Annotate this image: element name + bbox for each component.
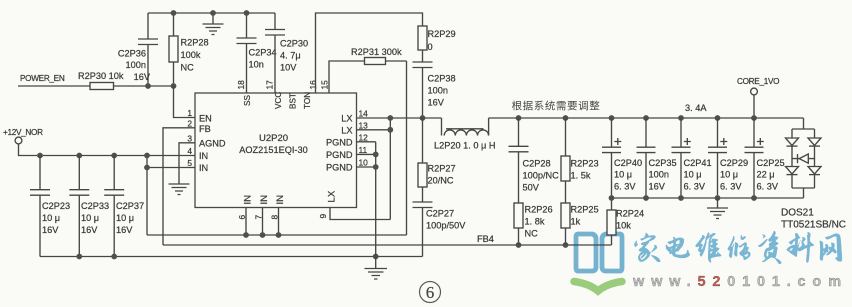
pin 15 TON: [303, 80, 330, 109]
svg-text:100n: 100n: [126, 60, 146, 70]
svg-text:PGND: PGND: [326, 163, 353, 173]
svg-text:C2P27: C2P27: [426, 209, 454, 219]
svg-text:9: 9: [318, 214, 328, 219]
svg-text:10 μ: 10 μ: [614, 170, 632, 180]
svg-text:16V: 16V: [428, 98, 445, 108]
svg-text:10 μ: 10 μ: [42, 213, 60, 223]
svg-text:100n: 100n: [428, 86, 448, 96]
svg-text:22 μ: 22 μ: [757, 170, 775, 180]
svg-text:R2P23: R2P23: [571, 159, 599, 169]
svg-text:BST: BST: [289, 93, 298, 109]
svg-text:6: 6: [426, 283, 435, 302]
svg-text:DOS21: DOS21: [781, 208, 814, 219]
svg-text:6: 6: [237, 215, 247, 220]
svg-text:3. 4A: 3. 4A: [685, 103, 707, 113]
resistor R2P25: [561, 203, 599, 245]
svg-text:16: 16: [308, 80, 318, 90]
svg-text:4. 7μ: 4. 7μ: [280, 51, 301, 61]
svg-text:FB4: FB4: [477, 234, 494, 244]
svg-text:LX: LX: [341, 125, 352, 135]
pin 6 IN: [237, 195, 254, 235]
svg-text:R2P30 10k: R2P30 10k: [78, 71, 124, 81]
resistor R2P27: [418, 118, 456, 202]
svg-text:R2P26: R2P26: [525, 205, 553, 215]
resistor R2P26: [514, 203, 553, 245]
svg-text:4: 4: [187, 146, 192, 156]
wire pin5 feed: [147, 156, 195, 168]
wire output ground rail: [612, 197, 804, 199]
svg-text:R2P27: R2P27: [428, 164, 456, 174]
svg-text:100p/50V: 100p/50V: [426, 221, 466, 231]
watermark chinese text 家电维修资料网: [634, 233, 660, 262]
svg-text:C2P36: C2P36: [118, 49, 146, 59]
capacitor C2P29: [708, 118, 748, 198]
wire VOUT rail: [489, 117, 804, 119]
resistor R2P30: [78, 71, 124, 90]
pin 10 PGND: [326, 158, 376, 173]
ground (main, below PGND): [365, 257, 388, 280]
wire PGND drop: [375, 142, 377, 257]
ground (output): [707, 198, 728, 219]
wire EN: [174, 86, 196, 118]
capacitor C2P34: [237, 13, 277, 93]
pin 11 PGND: [326, 145, 376, 160]
svg-text:2: 2: [187, 118, 192, 128]
svg-text:POWER_EN: POWER_EN: [20, 74, 65, 83]
svg-text:C2P38: C2P38: [428, 74, 456, 84]
svg-text:15: 15: [320, 80, 330, 90]
svg-text:R2P31 300k: R2P31 300k: [351, 47, 402, 57]
capacitor C2P28: [509, 118, 560, 203]
svg-text:14: 14: [359, 109, 369, 119]
capacitor C2P23: [30, 156, 70, 257]
svg-text:18: 18: [236, 80, 246, 90]
pin 2 FB: [163, 118, 211, 245]
watermark book icon: [576, 234, 622, 271]
svg-text:+12V_NOR: +12V_NOR: [3, 128, 43, 137]
svg-text:20/NC: 20/NC: [428, 176, 454, 186]
pin 13 LX: [341, 120, 390, 135]
pin 7 IN: [254, 195, 271, 235]
net FB4: [163, 234, 612, 245]
svg-text:6. 3V: 6. 3V: [614, 181, 636, 191]
svg-text:8: 8: [270, 215, 280, 220]
svg-text:10V: 10V: [280, 63, 297, 73]
svg-text:U2P20: U2P20: [259, 133, 288, 144]
svg-text:PGND: PGND: [326, 137, 353, 147]
svg-text:17: 17: [265, 80, 275, 90]
pin 3 AGND: [179, 133, 226, 183]
svg-text:TON: TON: [303, 92, 312, 109]
resistor R2P24: [607, 198, 644, 245]
svg-text:10k: 10k: [616, 221, 631, 231]
svg-text:16V: 16V: [116, 225, 133, 235]
svg-text:C2P28: C2P28: [523, 159, 551, 169]
svg-text:AOZ2151EQI-30: AOZ2151EQI-30: [239, 145, 307, 155]
svg-text:IN: IN: [199, 151, 208, 161]
node junctions VOUT rail: [516, 115, 757, 121]
svg-text:C2P30: C2P30: [280, 39, 308, 49]
op-amp U1 / IC U2P20 box: [195, 93, 357, 208]
svg-text:LX: LX: [327, 190, 338, 202]
wire IN rail (vertical drop + bottom run): [147, 168, 407, 236]
svg-text:C2P33: C2P33: [81, 201, 109, 211]
note text (adjust per system needs): [512, 101, 522, 111]
svg-text:16V: 16V: [42, 225, 59, 235]
svg-text:C2P25: C2P25: [757, 158, 785, 168]
resistor R2P28: [169, 13, 209, 86]
terminal CORE_1VO: [737, 77, 779, 118]
svg-text:IN: IN: [275, 195, 286, 205]
pin 16 BST: [289, 80, 319, 109]
ground (top): [203, 13, 224, 35]
pin 14 LX: [341, 109, 441, 124]
svg-text:R2P24: R2P24: [616, 209, 644, 219]
capacitor C2P27: [413, 202, 467, 257]
sheet number 6: [420, 282, 441, 303]
net POWER_EN: [18, 74, 174, 86]
svg-text:PGND: PGND: [326, 150, 353, 160]
svg-text:C2P40: C2P40: [614, 158, 642, 168]
svg-text:10 μ: 10 μ: [81, 213, 99, 223]
svg-text:EN: EN: [199, 114, 212, 124]
capacitor C2P36: [118, 13, 158, 86]
node junctions IN rail: [243, 232, 281, 238]
svg-text:50V: 50V: [523, 183, 540, 193]
node junctions POWER_EN line: [145, 83, 176, 89]
capacitor C2P40: [602, 118, 642, 198]
capacitor C2P30: [265, 13, 308, 93]
svg-text:NC: NC: [525, 229, 539, 239]
svg-text:100p/NC: 100p/NC: [523, 171, 560, 181]
svg-text:NC: NC: [181, 63, 195, 73]
svg-text:L2P20 1. 0 μ H: L2P20 1. 0 μ H: [434, 141, 495, 151]
resistor R2P23: [561, 118, 599, 203]
svg-text:16V: 16V: [81, 225, 98, 235]
node junctions top rail: [171, 10, 250, 16]
svg-text:VCC: VCC: [274, 92, 283, 109]
svg-text:6. 3V: 6. 3V: [757, 181, 779, 191]
svg-text:10 μ: 10 μ: [684, 170, 702, 180]
ground (AGND): [169, 184, 190, 195]
watermark green swoosh: [574, 282, 622, 292]
svg-text:10 μ: 10 μ: [720, 170, 738, 180]
svg-text:LX: LX: [341, 114, 352, 124]
svg-text:1. 8k: 1. 8k: [525, 217, 545, 227]
svg-text:IN: IN: [243, 195, 254, 205]
svg-text:C2P41: C2P41: [684, 158, 712, 168]
pin 4 IN: [187, 146, 208, 161]
svg-text:10: 10: [359, 158, 369, 168]
svg-text:R2P25: R2P25: [571, 205, 599, 215]
wire top rail: [148, 12, 275, 14]
svg-text:5: 5: [187, 158, 192, 168]
svg-text:10 μ: 10 μ: [116, 213, 134, 223]
svg-text:FB: FB: [199, 124, 211, 134]
svg-text:1k: 1k: [571, 217, 581, 227]
inductor L2P20: [434, 118, 495, 151]
resistor R2P31: [351, 47, 407, 65]
svg-text:12: 12: [359, 132, 369, 142]
diode network DOS21: [781, 118, 846, 231]
resistor R2P29: [418, 26, 456, 62]
svg-text:C2P34: C2P34: [249, 48, 277, 58]
svg-text:AGND: AGND: [199, 138, 226, 148]
svg-text:1: 1: [187, 108, 192, 118]
svg-text:16V: 16V: [649, 181, 666, 191]
svg-text:IN: IN: [199, 163, 208, 173]
svg-text:IN: IN: [259, 195, 270, 205]
pin 18 SS: [236, 80, 252, 106]
svg-text:C2P23: C2P23: [42, 201, 70, 211]
terminal +12V_NOR: [3, 128, 43, 144]
svg-text:C2P35: C2P35: [649, 158, 677, 168]
pin 12 PGND: [326, 132, 376, 147]
svg-text:CORE_1VO: CORE_1VO: [737, 77, 779, 86]
wire R2P31 to VIN rail: [406, 61, 408, 235]
svg-text:1. 5k: 1. 5k: [571, 171, 591, 181]
wire BST loop: [316, 13, 423, 93]
svg-text:13: 13: [359, 120, 369, 130]
capacitor C2P33: [69, 156, 109, 257]
capacitor C2P37: [104, 156, 144, 257]
svg-text:100n: 100n: [649, 170, 669, 180]
svg-text:10n: 10n: [249, 60, 264, 70]
wire ground rail: [40, 256, 423, 258]
wire +12V rail: [19, 144, 196, 156]
svg-text:7: 7: [254, 215, 264, 220]
svg-text:16V: 16V: [134, 72, 151, 82]
capacitor C2P25: [745, 118, 785, 198]
pin 9 LX: [318, 190, 390, 219]
wire TON: [329, 61, 365, 93]
capacitor C2P41: [672, 118, 712, 198]
pin 8 IN: [270, 195, 287, 235]
capacitor C2P35: [637, 118, 677, 198]
pin 5 IN: [187, 158, 208, 173]
node junctions ground rail: [76, 254, 378, 260]
pin 17 VCC: [265, 80, 284, 109]
svg-text:6. 3V: 6. 3V: [720, 181, 742, 191]
node junctions +12V rail: [37, 153, 150, 171]
svg-text:C2P29: C2P29: [720, 158, 748, 168]
capacitor C2P38: [413, 62, 456, 118]
svg-text:R2P29: R2P29: [428, 29, 456, 39]
svg-text:TT0521SB/NC: TT0521SB/NC: [781, 220, 846, 231]
svg-text:3: 3: [187, 133, 192, 143]
svg-text:www.520101.com: www.520101.com: [632, 274, 848, 290]
svg-text:0: 0: [428, 42, 433, 52]
svg-text:11: 11: [359, 145, 368, 155]
svg-text:100k: 100k: [181, 50, 201, 60]
svg-text:R2P28: R2P28: [181, 38, 209, 48]
svg-text:SS: SS: [243, 95, 252, 106]
svg-text:C2P37: C2P37: [116, 201, 144, 211]
svg-text:6. 3V: 6. 3V: [684, 181, 706, 191]
wire LX drop to pin 9: [389, 118, 391, 220]
pin 1 EN label: [187, 108, 211, 124]
